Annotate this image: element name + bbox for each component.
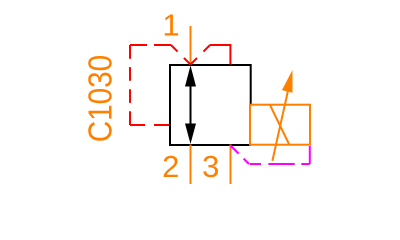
spring diagonal	[270, 105, 289, 144]
port 1 line	[190, 26, 192, 65]
port 3 line	[230, 145, 232, 185]
magenta drain line	[231, 146, 310, 165]
svg-text:1: 1	[162, 8, 179, 43]
double-headed arrow (valve flow path)	[185, 66, 196, 145]
svg-text:2: 2	[162, 149, 179, 184]
svg-text:3: 3	[202, 149, 219, 184]
svg-text:C1030: C1030	[82, 55, 119, 142]
adjustment arrow	[272, 79, 290, 161]
valve body box	[170, 65, 251, 145]
red pilot line left	[130, 45, 191, 125]
spring box (adjustable)	[250, 105, 310, 145]
red pilot line right	[191, 45, 231, 65]
port 2 line	[190, 145, 192, 185]
